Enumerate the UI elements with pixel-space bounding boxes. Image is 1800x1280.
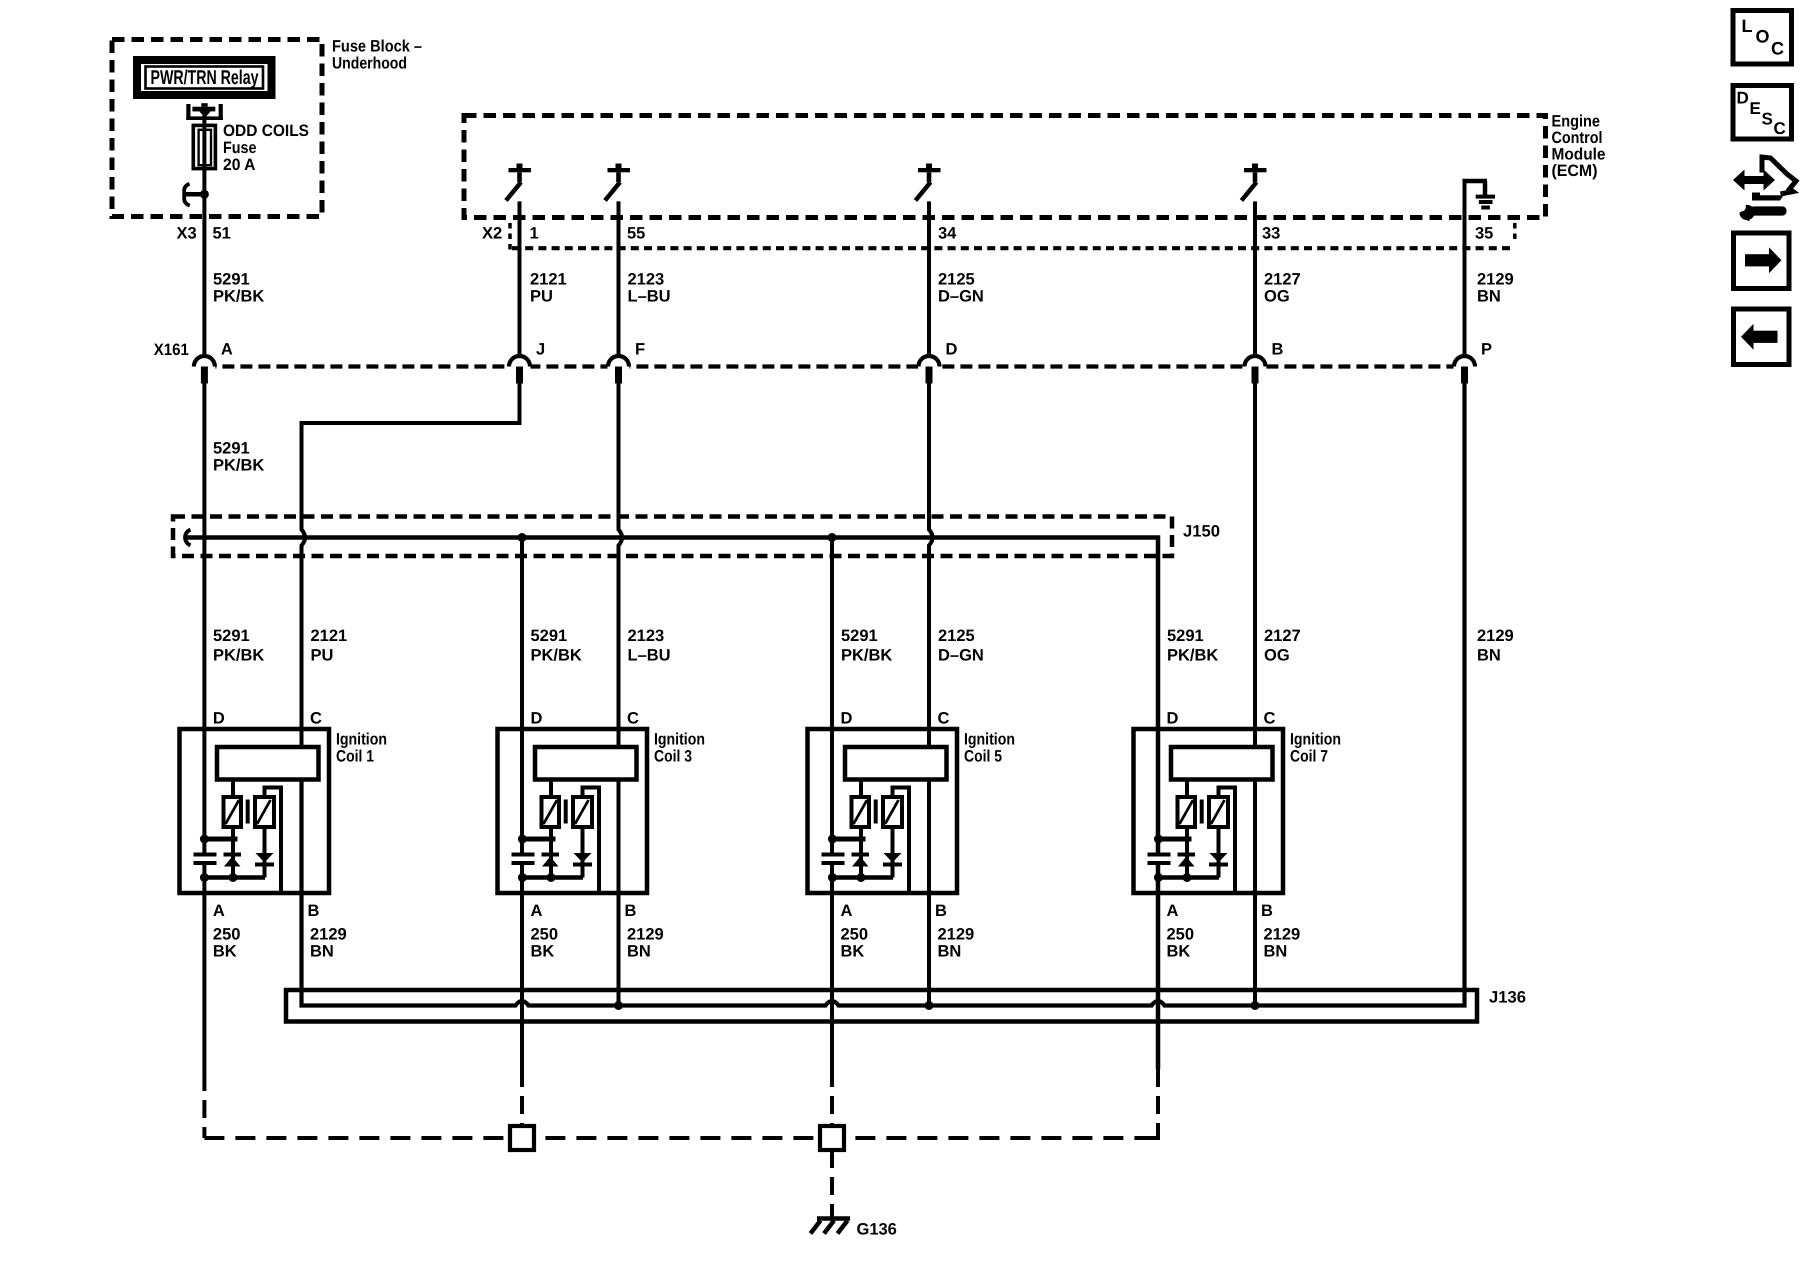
svg-text:2125: 2125: [938, 627, 975, 645]
svg-text:C: C: [627, 710, 639, 728]
svg-text:C: C: [1264, 710, 1276, 728]
svg-text:BN: BN: [1264, 943, 1288, 961]
svg-text:PWR/TRN Relay: PWR/TRN Relay: [151, 67, 260, 89]
svg-text:X3: X3: [177, 225, 197, 243]
svg-text:35: 35: [1475, 225, 1493, 243]
svg-text:Coil 5: Coil 5: [964, 748, 1002, 766]
svg-text:BK: BK: [841, 943, 865, 961]
svg-text:E: E: [1750, 99, 1761, 118]
svg-text:BN: BN: [627, 943, 651, 961]
svg-text:2123: 2123: [628, 271, 665, 289]
svg-text:P: P: [1481, 341, 1492, 359]
svg-text:B: B: [1272, 341, 1284, 359]
svg-text:Ignition: Ignition: [336, 731, 387, 749]
svg-text:55: 55: [627, 225, 645, 243]
svg-text:1: 1: [530, 225, 539, 243]
svg-text:250: 250: [841, 926, 869, 944]
svg-text:2121: 2121: [311, 627, 348, 645]
svg-text:2127: 2127: [1264, 271, 1301, 289]
svg-text:F: F: [635, 341, 645, 359]
svg-text:2121: 2121: [530, 271, 567, 289]
svg-text:Coil 7: Coil 7: [1290, 748, 1328, 766]
svg-text:Ignition: Ignition: [1290, 731, 1341, 749]
svg-text:Underhood: Underhood: [332, 54, 407, 72]
svg-text:D: D: [213, 710, 225, 728]
svg-text:Control: Control: [1552, 129, 1603, 147]
svg-text:Module: Module: [1552, 145, 1606, 163]
svg-text:X161: X161: [154, 341, 189, 359]
svg-text:A: A: [841, 902, 853, 920]
svg-text:Coil 1: Coil 1: [336, 748, 374, 766]
svg-text:Fuse: Fuse: [223, 139, 257, 157]
svg-text:D: D: [1167, 710, 1179, 728]
svg-text:BN: BN: [310, 943, 334, 961]
svg-text:L: L: [1742, 16, 1753, 36]
svg-text:5291: 5291: [213, 271, 250, 289]
svg-text:51: 51: [213, 225, 231, 243]
svg-text:D: D: [1737, 89, 1749, 108]
svg-text:2129: 2129: [627, 926, 664, 944]
svg-text:PU: PU: [530, 288, 553, 306]
svg-text:PK/BK: PK/BK: [1167, 647, 1218, 665]
svg-text:250: 250: [531, 926, 559, 944]
svg-text:Ignition: Ignition: [654, 731, 705, 749]
svg-text:O: O: [1756, 27, 1770, 47]
svg-text:(ECM): (ECM): [1552, 162, 1598, 180]
svg-text:PK/BK: PK/BK: [213, 457, 264, 475]
svg-text:2125: 2125: [938, 271, 975, 289]
svg-text:A: A: [221, 341, 233, 359]
svg-text:Fuse Block –: Fuse Block –: [332, 37, 422, 55]
svg-text:BN: BN: [938, 943, 962, 961]
svg-text:2129: 2129: [310, 926, 347, 944]
svg-text:D: D: [946, 341, 958, 359]
svg-text:C: C: [1771, 39, 1784, 59]
svg-text:20 A: 20 A: [223, 156, 256, 174]
svg-text:C: C: [310, 710, 322, 728]
svg-text:2129: 2129: [938, 926, 975, 944]
svg-text:B: B: [625, 902, 637, 920]
svg-text:BK: BK: [531, 943, 555, 961]
svg-text:B: B: [935, 902, 947, 920]
svg-text:250: 250: [1167, 926, 1195, 944]
svg-text:BN: BN: [1477, 288, 1501, 306]
svg-text:D: D: [841, 710, 853, 728]
svg-text:5291: 5291: [531, 627, 568, 645]
svg-text:BN: BN: [1477, 647, 1501, 665]
svg-text:PU: PU: [311, 647, 334, 665]
svg-text:D–GN: D–GN: [938, 647, 984, 665]
svg-text:PK/BK: PK/BK: [213, 288, 264, 306]
svg-text:5291: 5291: [841, 627, 878, 645]
svg-text:33: 33: [1262, 225, 1280, 243]
svg-text:PK/BK: PK/BK: [531, 647, 582, 665]
svg-text:D–GN: D–GN: [938, 288, 984, 306]
svg-text:BK: BK: [213, 943, 237, 961]
svg-text:2129: 2129: [1477, 271, 1514, 289]
svg-text:G136: G136: [857, 1221, 897, 1239]
svg-text:5291: 5291: [1167, 627, 1204, 645]
svg-text:A: A: [1167, 902, 1179, 920]
svg-text:J136: J136: [1489, 989, 1526, 1007]
svg-text:2129: 2129: [1477, 627, 1514, 645]
svg-text:34: 34: [938, 225, 957, 243]
svg-text:J150: J150: [1183, 523, 1220, 541]
svg-text:PK/BK: PK/BK: [213, 647, 264, 665]
svg-text:L–BU: L–BU: [628, 647, 671, 665]
svg-text:2123: 2123: [628, 627, 665, 645]
svg-text:L–BU: L–BU: [628, 288, 671, 306]
svg-text:J: J: [536, 341, 545, 359]
svg-text:5291: 5291: [213, 627, 250, 645]
svg-text:X2: X2: [482, 225, 502, 243]
svg-text:250: 250: [213, 926, 241, 944]
svg-text:2127: 2127: [1264, 627, 1301, 645]
svg-text:2129: 2129: [1264, 926, 1301, 944]
svg-text:C: C: [1774, 119, 1786, 138]
svg-text:PK/BK: PK/BK: [841, 647, 892, 665]
svg-text:S: S: [1762, 110, 1773, 129]
svg-text:5291: 5291: [213, 440, 250, 458]
svg-text:OG: OG: [1264, 647, 1290, 665]
svg-text:Ignition: Ignition: [964, 731, 1015, 749]
svg-text:A: A: [531, 902, 543, 920]
svg-text:B: B: [1261, 902, 1273, 920]
svg-text:OG: OG: [1264, 288, 1290, 306]
svg-text:Coil 3: Coil 3: [654, 748, 692, 766]
svg-text:A: A: [213, 902, 225, 920]
svg-text:ODD COILS: ODD COILS: [223, 122, 309, 140]
svg-text:C: C: [938, 710, 950, 728]
svg-text:B: B: [308, 902, 320, 920]
svg-text:BK: BK: [1167, 943, 1191, 961]
svg-text:D: D: [531, 710, 543, 728]
svg-text:Engine: Engine: [1552, 112, 1601, 130]
